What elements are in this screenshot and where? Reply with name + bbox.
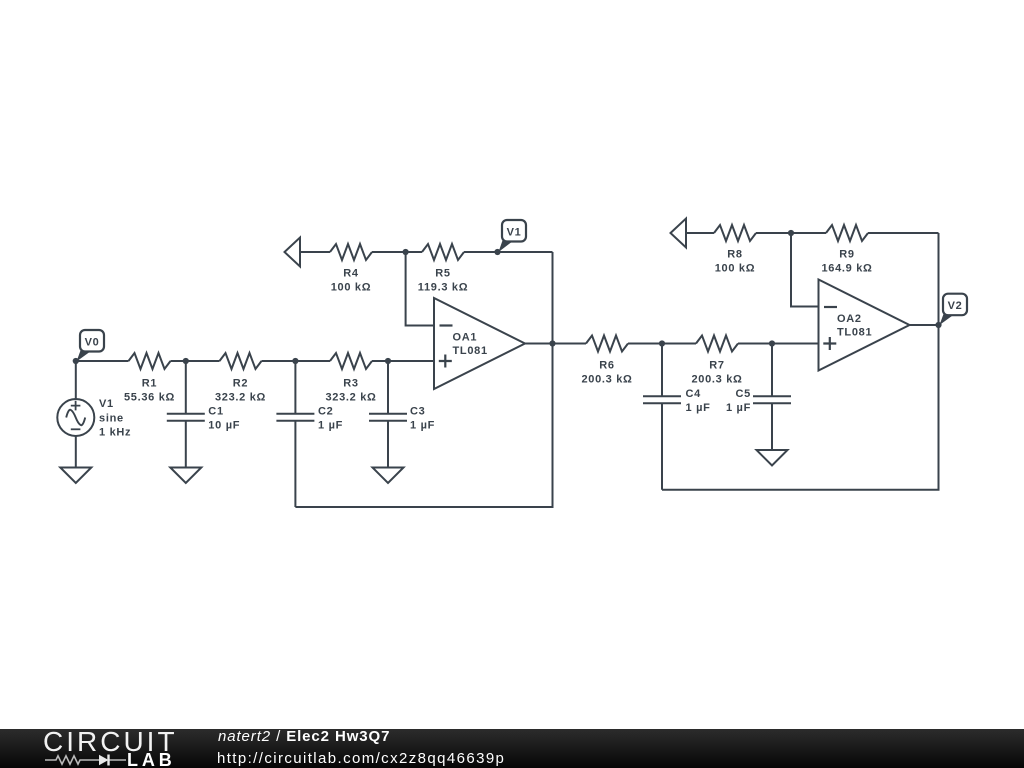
svg-text:sine: sine — [99, 413, 124, 425]
node R8-R9 junction — [788, 230, 794, 236]
svg-text:119.3 kΩ: 119.3 kΩ — [418, 282, 469, 294]
ground under C3 — [373, 468, 404, 484]
wire between R6 R7 — [628, 343, 696, 345]
svg-text:V1: V1 — [507, 226, 522, 238]
wire OA2 output — [910, 324, 939, 326]
capacitor C3 — [369, 361, 407, 468]
voltage source V1 — [75, 361, 77, 399]
svg-text:323.2 kΩ: 323.2 kΩ — [215, 392, 266, 404]
svg-text:V1: V1 — [99, 398, 114, 410]
footer bar — [0, 729, 1024, 768]
ground under C5 — [757, 450, 788, 466]
wire top feedback rail stage1 — [300, 251, 553, 253]
capacitor C5 — [753, 344, 791, 451]
resistor R5 — [422, 244, 464, 260]
svg-text:100 kΩ: 100 kΩ — [715, 263, 756, 275]
svg-text:1 µF: 1 µF — [318, 420, 343, 432]
node R3-C3 junction — [385, 358, 391, 364]
resistor R4 — [330, 244, 372, 260]
resistor R8 — [714, 225, 756, 241]
circuitlab logo wordmark — [43, 726, 178, 758]
wire top feedback rail stage2 — [686, 232, 939, 234]
node flag V0 — [77, 330, 105, 362]
logo resistor-diode glyph — [44, 752, 128, 768]
op-amp U2 triangle — [819, 280, 910, 371]
capacitor C4 — [643, 344, 681, 490]
capacitor C1 — [167, 361, 205, 468]
svg-text:V0: V0 — [85, 336, 100, 348]
wire inverting stub OA1 — [406, 252, 434, 326]
resistor R7 — [696, 336, 738, 352]
svg-text:V2: V2 — [948, 300, 963, 312]
node R2-R3-C2 junction — [292, 358, 298, 364]
resistor R9 — [826, 225, 868, 241]
node R6-R7-C4 junction — [659, 340, 665, 346]
svg-text:C1: C1 — [208, 406, 223, 418]
svg-text:55.36 kΩ: 55.36 kΩ — [124, 392, 175, 404]
resistor R3 — [330, 353, 372, 369]
resistor R1 — [129, 353, 171, 369]
svg-text:R4: R4 — [343, 268, 359, 280]
svg-text:200.3 kΩ: 200.3 kΩ — [581, 374, 632, 386]
svg-text:C2: C2 — [318, 406, 333, 418]
ground left triangle stage2 — [671, 219, 687, 248]
node OA1 output junction — [549, 340, 555, 346]
wire R7 to OA2 — [738, 343, 819, 345]
svg-text:C5: C5 — [736, 388, 751, 400]
capacitor C2 — [276, 361, 314, 507]
ground under V1 — [60, 468, 91, 484]
node R4-R5 junction — [403, 249, 409, 255]
op-amp U2 minus — [824, 306, 837, 308]
svg-text:R5: R5 — [435, 268, 450, 280]
svg-text:10 µF: 10 µF — [208, 420, 240, 432]
resistor R2 — [220, 353, 262, 369]
wire feedback bottom rail stage1 — [295, 252, 552, 507]
wire feedback bottom rail stage2 — [662, 233, 939, 490]
node R7-C5 junction — [769, 340, 775, 346]
op-amp U1 plus — [439, 355, 452, 368]
svg-text:OA2: OA2 — [837, 313, 862, 325]
svg-text:C3: C3 — [410, 406, 425, 418]
wire inverting stub OA2 — [791, 233, 819, 307]
svg-text:TL081: TL081 — [837, 327, 872, 339]
svg-text:1 µF: 1 µF — [726, 402, 751, 414]
svg-text:R6: R6 — [599, 360, 614, 372]
svg-text:R9: R9 — [839, 249, 854, 261]
svg-text:OA1: OA1 — [453, 332, 478, 344]
svg-text:R1: R1 — [142, 378, 157, 390]
resistor R6 — [586, 336, 628, 352]
node V2 output junction — [935, 322, 941, 328]
node R1-R2-C1 junction — [183, 358, 189, 364]
svg-text:1 µF: 1 µF — [686, 402, 711, 414]
op-amp U2 plus — [823, 337, 836, 350]
op-amp U1 minus — [440, 324, 453, 326]
wire OA1 output — [525, 343, 586, 345]
footer url line — [217, 750, 505, 767]
svg-text:1 µF: 1 µF — [410, 420, 435, 432]
svg-text:323.2 kΩ: 323.2 kΩ — [325, 392, 376, 404]
svg-text:R2: R2 — [233, 378, 248, 390]
footer title line — [218, 728, 390, 745]
svg-text:164.9 kΩ: 164.9 kΩ — [821, 263, 872, 275]
node V0 junction — [73, 358, 79, 364]
svg-text:R3: R3 — [343, 378, 358, 390]
ground left triangle stage1 — [285, 238, 301, 267]
node flag V1 — [499, 220, 527, 252]
node V1 junction — [494, 249, 500, 255]
op-amp U1 triangle — [434, 298, 525, 389]
svg-text:200.3 kΩ: 200.3 kΩ — [691, 374, 742, 386]
wire main input rail stage1 — [76, 360, 434, 362]
ground under C1 — [170, 468, 201, 484]
svg-text:C4: C4 — [686, 388, 702, 400]
svg-text:R7: R7 — [709, 360, 724, 372]
node flag V2 — [940, 294, 968, 325]
svg-text:1 kHz: 1 kHz — [99, 427, 131, 439]
svg-text:TL081: TL081 — [453, 345, 488, 357]
svg-text:100 kΩ: 100 kΩ — [331, 282, 372, 294]
svg-text:R8: R8 — [727, 249, 742, 261]
